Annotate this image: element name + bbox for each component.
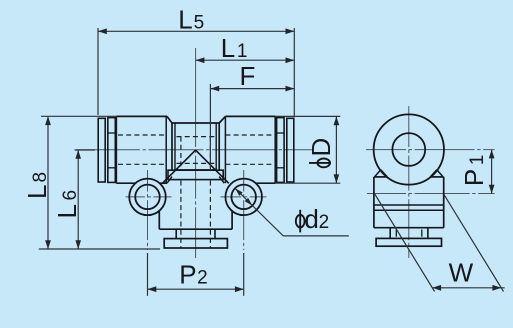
svg-text:F: F bbox=[240, 61, 256, 91]
svg-text:D: D bbox=[306, 138, 336, 157]
svg-text:W: W bbox=[449, 257, 474, 287]
